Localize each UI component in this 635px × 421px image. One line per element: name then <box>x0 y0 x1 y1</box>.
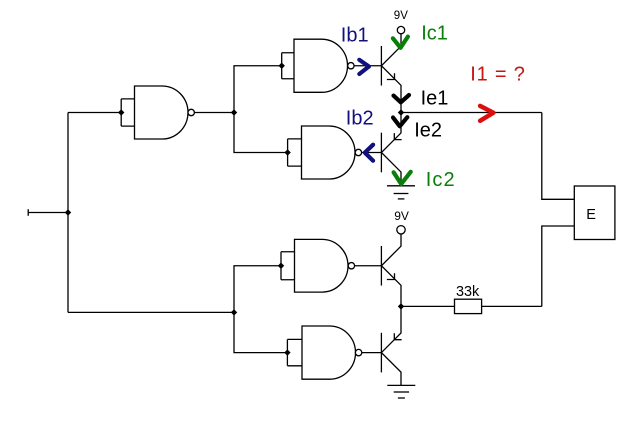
ground upper <box>387 186 415 199</box>
wire U5 output to Q4 base <box>362 352 382 354</box>
wire E bottom pin to resistor net <box>542 226 575 306</box>
block E <box>574 186 615 240</box>
current arrow Ic1 <box>393 37 408 48</box>
node junction emitters upper <box>398 109 404 115</box>
wire node to resistor <box>401 305 455 307</box>
wire resistor to vertical <box>482 305 542 307</box>
label Ic1 <box>421 23 448 45</box>
NAND gate U4 <box>281 239 355 292</box>
wire to U1 input <box>68 112 121 114</box>
label 9V bottom <box>394 209 409 223</box>
transistor Q3 <box>381 234 401 306</box>
terminal 9V bottom <box>397 226 405 234</box>
current arrow Ie1 <box>394 95 410 102</box>
terminal 9V top <box>397 26 404 33</box>
transistor Q1 <box>381 34 401 113</box>
transistor Q4 <box>381 306 401 385</box>
node U1 output branch <box>231 109 237 115</box>
node U2 input <box>279 63 285 69</box>
input terminal tick <box>27 209 29 216</box>
label 33k <box>456 284 480 300</box>
label I1 = ? <box>470 64 525 86</box>
NAND gate U2 <box>282 39 354 92</box>
node U4 input <box>278 263 284 269</box>
ground lower <box>387 385 415 398</box>
svg-text:33k: 33k <box>456 284 480 300</box>
node U3 input <box>284 149 290 155</box>
wire to E top pin <box>542 113 575 200</box>
node lower branch <box>231 309 237 315</box>
label Ie2 <box>414 120 442 142</box>
current arrow Ib1 <box>359 60 369 74</box>
label 9V top <box>394 10 408 22</box>
svg-text:Ie2: Ie2 <box>414 120 442 142</box>
current arrow Ic2 <box>394 172 411 184</box>
svg-text:Ib2: Ib2 <box>346 108 374 130</box>
NAND gate U1 <box>121 86 194 139</box>
wire lower horizontal bus <box>68 311 234 313</box>
wire U4 output to Q3 base <box>355 265 382 267</box>
current arrow Ib2 <box>365 145 373 161</box>
label E <box>586 207 596 223</box>
wire I1 horizontal <box>401 112 542 114</box>
wire branch down to U5 <box>234 312 287 352</box>
label Ib1 <box>341 25 369 47</box>
svg-text:Ic2: Ic2 <box>426 169 456 191</box>
wire branch down to U3 <box>234 113 288 153</box>
wire branch up to U4 <box>234 266 281 313</box>
wire U3 output to Q2 base <box>362 152 382 154</box>
svg-text:Ic1: Ic1 <box>421 23 448 45</box>
NAND gate U5 <box>287 326 361 379</box>
label Ic2 <box>426 169 456 191</box>
resistor R1 33k <box>455 299 482 313</box>
wire input horizontal <box>28 212 68 214</box>
wire left vertical bus <box>67 113 69 313</box>
NAND gate U3 <box>288 126 362 179</box>
svg-text:I1 = ?: I1 = ? <box>470 64 525 86</box>
svg-text:Ie1: Ie1 <box>421 88 449 110</box>
svg-text:9V: 9V <box>394 10 408 22</box>
node junction emitters lower <box>398 303 404 309</box>
node U1 input <box>118 109 124 115</box>
wire U1 output <box>195 112 235 114</box>
svg-text:E: E <box>586 207 596 223</box>
node input junction <box>65 209 71 215</box>
label Ib2 <box>346 108 374 130</box>
svg-text:9V: 9V <box>394 209 409 223</box>
current arrow Ie2 <box>393 117 407 126</box>
current arrow I1 <box>480 106 493 121</box>
wire branch up to U2 <box>234 66 282 113</box>
transistor Q2 <box>381 113 401 186</box>
svg-text:Ib1: Ib1 <box>341 25 369 47</box>
node U5 input <box>284 349 290 355</box>
wire U2 output to Q1 base <box>354 65 381 67</box>
label Ie1 <box>421 88 449 110</box>
